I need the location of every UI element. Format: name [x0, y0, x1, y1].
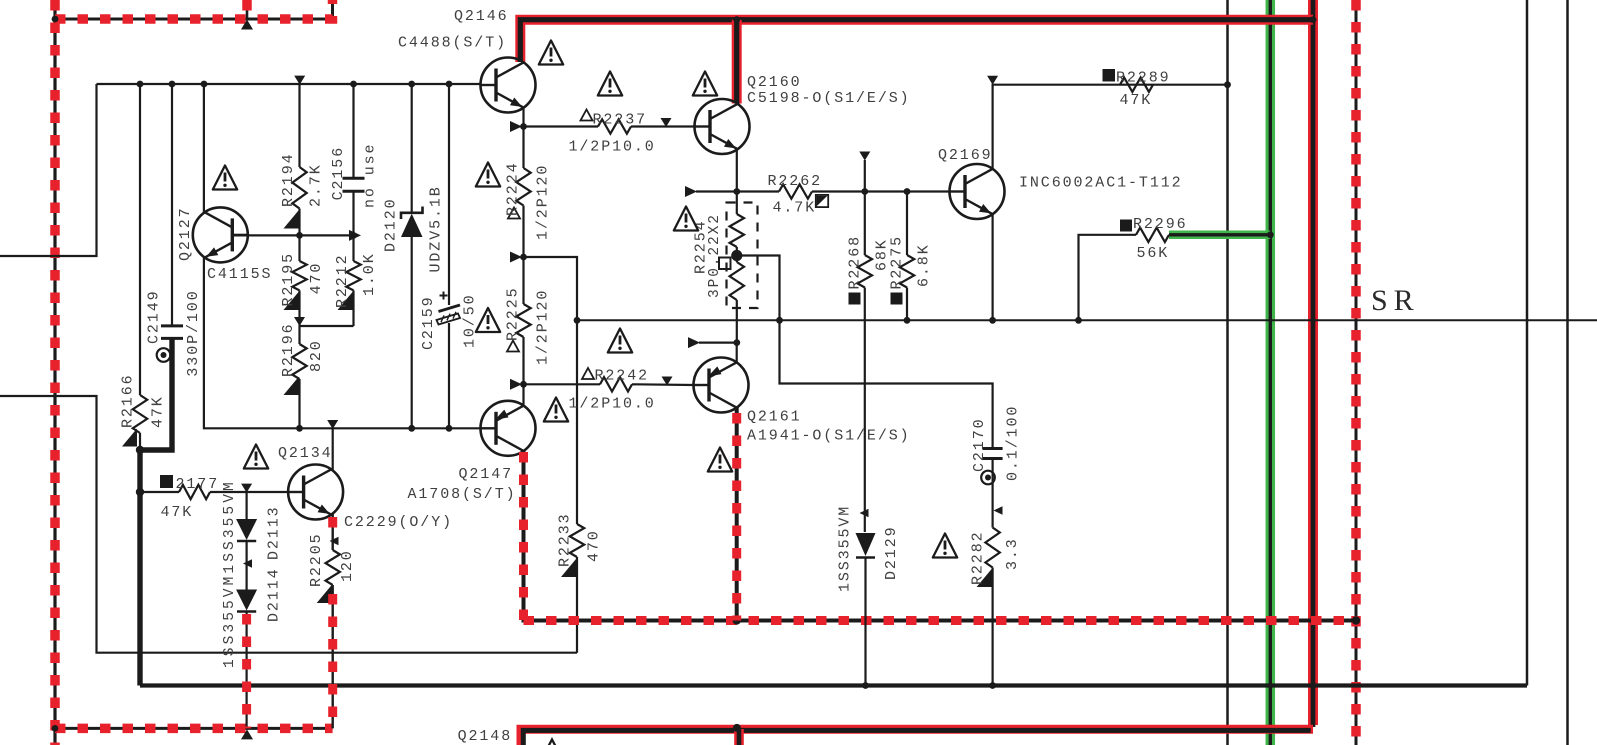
- node junction R2296 feed / SR: [1075, 317, 1082, 324]
- wire R2194 to base node: [298, 209, 300, 236]
- red dashed overlay R2205 to border: [328, 594, 337, 728]
- connector arrow down at Q2169 collector corner: [987, 76, 998, 85]
- node junction top red wire / Q2160: [733, 16, 740, 23]
- connector arrow down R2268 top: [859, 152, 870, 161]
- transistor Q2147: [481, 401, 536, 456]
- wire red highlighted positive rail: [1308, 0, 1318, 725]
- red dashed overlay bottom border: [55, 724, 333, 734]
- half-filled square mark R2262: [816, 195, 828, 207]
- svg-text:Q2169: Q2169: [938, 147, 993, 164]
- connector arrow up at top border: [241, 20, 253, 30]
- svg-text:D2129: D2129: [883, 525, 900, 580]
- square mark R2296: [1120, 220, 1132, 232]
- svg-text:1SS355VM: 1SS355VM: [837, 505, 854, 592]
- node center tap R2254: [731, 250, 742, 261]
- capacitor C2159: [448, 84, 450, 305]
- resistor R2296: [1136, 228, 1169, 242]
- resistor R2268: [864, 160, 866, 255]
- open mark R2237: [581, 110, 593, 121]
- red dashed overlay Q2161 collector: [732, 413, 741, 621]
- node base wire junction C2159: [446, 425, 453, 432]
- node bottom bus junction R2282: [989, 682, 996, 689]
- connector arrow down to D2113: [241, 484, 252, 493]
- svg-text:R2275: R2275: [889, 235, 906, 290]
- svg-text:Q2146: Q2146: [454, 8, 509, 25]
- svg-text:C5198-O(S1/E/S): C5198-O(S1/E/S): [747, 90, 911, 107]
- node bottom bus junction D2129: [862, 682, 869, 689]
- wire Q2169 emitter: [991, 214, 993, 320]
- node junction green link / green rail: [1267, 231, 1274, 238]
- connector arrow right at R2242 wire start: [510, 379, 522, 390]
- svg-text:1/2P10.0: 1/2P10.0: [569, 396, 656, 413]
- open square mark R2254: [719, 258, 731, 270]
- open mark R2242: [582, 368, 594, 379]
- svg-text:R2224: R2224: [505, 161, 522, 216]
- resistor R2233: [570, 524, 584, 557]
- svg-text:D2114: D2114: [266, 567, 283, 622]
- polarity arrow at R2205: [330, 537, 339, 546]
- svg-text:R2282: R2282: [970, 530, 987, 585]
- safety mark R2282: [977, 569, 992, 587]
- wire R2195/R2196 to R2212 bottom: [300, 325, 354, 327]
- dashed box around R2254: [727, 203, 758, 309]
- resistor R2254 lower: [730, 262, 744, 300]
- svg-text:A1941-O(S1/E/S): A1941-O(S1/E/S): [747, 428, 911, 445]
- resistor R2242: [524, 383, 601, 385]
- test point symbol at C2149: [157, 348, 171, 362]
- warning symbol near Q2161: [708, 448, 732, 472]
- svg-text:3P0.22X2: 3P0.22X2: [707, 213, 723, 298]
- resistor R2275: [906, 192, 908, 256]
- svg-text:C2170: C2170: [971, 417, 988, 472]
- wire Q2146 emitter: [522, 109, 524, 127]
- svg-text:A1708(S/T): A1708(S/T): [408, 486, 517, 503]
- wire emitter stub Q2161: [699, 342, 737, 344]
- resistor R2254 upper: [736, 192, 738, 215]
- node junction R2262 / R2268: [861, 188, 868, 195]
- svg-text:0.1/100: 0.1/100: [1005, 405, 1022, 481]
- svg-text:R2268: R2268: [847, 235, 864, 290]
- capacitor C2156: [352, 84, 354, 178]
- svg-text:Q2147: Q2147: [459, 466, 514, 483]
- svg-text:470: 470: [308, 262, 325, 295]
- svg-text:6.8K: 6.8K: [916, 243, 933, 287]
- svg-text:D2113: D2113: [266, 505, 283, 560]
- svg-text:R2296: R2296: [1133, 216, 1188, 233]
- transistor Q2160: [695, 99, 750, 154]
- svg-text:4.7K: 4.7K: [773, 200, 817, 217]
- node junction Q2146 emitter: [520, 123, 527, 130]
- connector arrow right at R2225 top: [510, 252, 522, 263]
- svg-text:Q2148: Q2148: [458, 728, 513, 745]
- node junction base net / C2156: [350, 232, 357, 239]
- transistor Q2169: [950, 164, 1005, 219]
- svg-text:1/2P120: 1/2P120: [535, 164, 552, 240]
- connector arrow down to Q2134: [327, 420, 338, 429]
- wire thick vertical bus: [137, 450, 142, 686]
- svg-text:R2166: R2166: [120, 373, 137, 428]
- warning symbol near Q2127: [213, 166, 237, 190]
- wire green highlighted rail: [1266, 0, 1276, 745]
- test point symbol at C2170: [981, 471, 995, 485]
- node top bus junction C2156: [350, 81, 357, 88]
- resistor R2262: [737, 190, 779, 192]
- node junction Q2160 emitter: [733, 188, 740, 195]
- svg-text:C2156: C2156: [330, 146, 347, 201]
- resistor R2212: [346, 261, 360, 290]
- node junction SR start: [574, 317, 581, 324]
- node junction R2262 / R2275: [904, 188, 911, 195]
- node junction Q2127 base / R2194: [296, 232, 303, 239]
- connector arrow down on R2242 wire: [662, 377, 673, 386]
- svg-text:Q2127: Q2127: [177, 206, 194, 261]
- diode D2113: [246, 492, 248, 519]
- node junction top red wire / red rail: [1310, 16, 1317, 23]
- wire Q2127 emitter to Q2147 base: [204, 257, 481, 429]
- wire red dashed rail (black core): [1355, 0, 1358, 745]
- svg-text:47K: 47K: [161, 504, 194, 521]
- square mark R2177: [160, 475, 173, 488]
- safety mark R2212: [338, 292, 353, 310]
- resistor R2195: [298, 235, 300, 261]
- svg-text:R2242: R2242: [595, 368, 650, 385]
- svg-text:R2233: R2233: [557, 512, 574, 567]
- square mark R2268: [849, 293, 861, 305]
- wire thick bottom bus: [140, 683, 1527, 687]
- node junction tap wire / SR line: [776, 317, 783, 324]
- warning symbol near Q2134: [244, 445, 268, 469]
- wire Q2127 collector: [203, 84, 205, 213]
- node top bus junction R2166: [137, 81, 144, 88]
- wire red drop to Q2160 collector: [732, 20, 742, 104]
- wire top red highlighted supply: [520, 20, 1313, 62]
- red dashed overlay Q2134 emitter net upper: [328, 517, 337, 536]
- svg-text:330P/100: 330P/100: [185, 289, 202, 376]
- resistor R2289: [1120, 78, 1153, 92]
- wire R2254 mid: [736, 247, 738, 262]
- connector arrow right at Q2146 emitter node: [510, 121, 522, 132]
- wire red stub down to Q2148: [734, 729, 744, 745]
- safety mark R2194: [284, 211, 299, 229]
- resistor R2166: [139, 84, 141, 395]
- svg-text:R2195: R2195: [280, 252, 297, 307]
- resistor R2196: [298, 326, 300, 344]
- svg-text:C4488(S/T): C4488(S/T): [398, 35, 507, 52]
- polarity arrow at D2114: [243, 559, 252, 568]
- safety mark R2205: [317, 585, 332, 603]
- svg-text:3.3: 3.3: [1004, 537, 1021, 570]
- svg-text:C2229(O/Y): C2229(O/Y): [344, 514, 453, 531]
- warning symbol near D2129: [933, 534, 957, 558]
- wire R2233 upper: [576, 320, 578, 524]
- connector arrow down on R2237 wire: [661, 118, 672, 127]
- node junction dashed bus / Q2161 collector: [733, 616, 741, 624]
- capacitor C2149: [171, 84, 173, 326]
- diode D2120 (zener UDZV5.1B): [411, 84, 413, 213]
- resistor R2282: [985, 528, 999, 568]
- resistor R2225: [522, 257, 524, 304]
- open mark R2224: [508, 208, 520, 219]
- node junction R2289 / rail A: [1224, 81, 1231, 88]
- svg-text:1/2P10.0: 1/2P10.0: [569, 139, 656, 156]
- connector arrow up at bottom border: [241, 729, 253, 739]
- svg-text:R2237: R2237: [593, 112, 648, 129]
- node top bus junction Q2127: [201, 81, 208, 88]
- svg-text:470: 470: [586, 529, 603, 562]
- node junction Q2161 emitter: [733, 339, 740, 346]
- safety mark R2195: [284, 292, 299, 310]
- resistor R2205: [326, 550, 340, 585]
- wire Q2147 collector dashed net (black core): [524, 451, 1357, 621]
- svg-text:R2196: R2196: [280, 322, 297, 377]
- connector arrow down R2195 bottom: [294, 317, 305, 326]
- node junction bottom red wire: [733, 724, 741, 732]
- warning symbol mid top 1: [598, 72, 622, 96]
- transistor Q2146: [481, 58, 536, 113]
- resistor R2224: [522, 127, 524, 169]
- svg-text:1/2P120: 1/2P120: [535, 289, 552, 365]
- svg-text:1SS355VM1SS355VM: 1SS355VM1SS355VM: [222, 479, 238, 668]
- warning symbol near R2242: [608, 329, 632, 353]
- wire vertical rail A: [1226, 0, 1229, 745]
- red dashed overlay top border: [55, 0, 333, 19]
- node top bus junction D2120: [408, 81, 415, 88]
- wire Q2160 emitter: [736, 150, 738, 192]
- diode D2114: [236, 590, 257, 611]
- svg-text:56K: 56K: [1137, 245, 1170, 262]
- svg-text:R2289: R2289: [1116, 70, 1171, 87]
- svg-text:820: 820: [308, 339, 325, 372]
- wire R2194 top: [298, 84, 300, 167]
- connector arrow down on top bus: [294, 76, 305, 85]
- svg-text:C2159: C2159: [420, 295, 437, 350]
- capacitor C2170: [983, 447, 1003, 450]
- wire vertical rail B: [1526, 0, 1529, 686]
- red dashed overlay on dashed rail: [1351, 0, 1361, 745]
- safety mark R2233: [561, 559, 576, 577]
- svg-text:47K: 47K: [1120, 92, 1153, 109]
- resistor R2194: [292, 167, 306, 209]
- node junction Q2169 emitter / SR: [989, 317, 996, 324]
- wire R2225 node to R2233 top: [524, 257, 578, 320]
- wire Q2127 base net: [232, 234, 353, 236]
- wire Q2134 emitter to R2205 (black core): [332, 514, 334, 551]
- node bottom border junction: [52, 725, 59, 732]
- red dashed overlay left border: [50, 0, 60, 745]
- svg-text:10/50: 10/50: [462, 293, 479, 348]
- wire R2296 feed: [1079, 235, 1137, 320]
- polarity arrow at R2282: [994, 506, 1003, 515]
- wire top border segment: [55, 0, 333, 19]
- warning symbol near R2224: [476, 163, 500, 187]
- node junction R2275 / SR: [904, 317, 911, 324]
- warning symbol mid top 2: [693, 72, 717, 96]
- connector arrow right at emitter stub: [685, 186, 697, 197]
- warning symbol near R2254: [674, 207, 698, 231]
- node top border junction: [52, 16, 59, 23]
- svg-text:Q2160: Q2160: [747, 74, 802, 91]
- warning symbol below R2242: [544, 398, 568, 422]
- warning symbol at Q2148 (clipped): [540, 740, 565, 745]
- svg-text:2177: 2177: [176, 476, 220, 493]
- node junction R2224/R2225: [520, 254, 527, 261]
- node base wire junction D2120: [408, 425, 415, 432]
- red dashed overlay Q2147 collector vertical: [519, 452, 528, 621]
- wire R2254 tap to C2170 feed: [737, 256, 993, 449]
- wire bottom red highlighted supply: [521, 729, 1313, 745]
- transistor Q2161: [694, 358, 749, 413]
- svg-text:Q2161: Q2161: [747, 409, 802, 426]
- connector arrow right at Q2161 emitter stub: [688, 337, 700, 348]
- svg-text:D2120: D2120: [383, 197, 400, 252]
- svg-text:C4115S: C4115S: [207, 266, 272, 283]
- svg-text:120: 120: [339, 549, 356, 582]
- square mark R2275: [891, 293, 903, 305]
- red dashed overlay bottom dashed bus: [524, 616, 1357, 625]
- transistor Q2127: [193, 207, 248, 262]
- resistor R2177: [140, 491, 179, 493]
- node junction thick bus / R2177: [136, 488, 144, 496]
- safety mark R2166: [122, 429, 137, 447]
- node junction R2166 bottom: [136, 446, 144, 454]
- wire Q2161 emitter: [736, 343, 738, 363]
- wire green highlighted link: [1169, 231, 1270, 240]
- svg-text:R2194: R2194: [280, 152, 297, 207]
- red dashed overlay D2114 to border: [242, 614, 251, 728]
- svg-text:R2212: R2212: [334, 253, 351, 308]
- wire left feed lower: [0, 396, 577, 653]
- diode D2129: [860, 509, 869, 518]
- connector arrow right on base net: [349, 230, 361, 241]
- svg-text:1.0K: 1.0K: [361, 252, 378, 296]
- wire stub to Q2134 collector: [332, 428, 334, 471]
- square mark R2289: [1103, 69, 1116, 82]
- wire left border (black core of red dashed service loop): [53, 0, 56, 745]
- svg-text:INC6002AC1-T112: INC6002AC1-T112: [1019, 175, 1183, 192]
- warning symbol near Q2146: [539, 41, 563, 65]
- open mark R2225: [507, 341, 519, 352]
- wire Q2169 collector: [993, 85, 1228, 170]
- svg-text:R2262: R2262: [768, 173, 823, 190]
- wire Q2161 collector dashed (black core): [735, 408, 739, 621]
- svg-text:R2205: R2205: [308, 532, 325, 587]
- svg-text:no use: no use: [362, 143, 379, 208]
- wire vertical rail C: [1566, 0, 1569, 745]
- safety mark R2196: [284, 377, 299, 395]
- wire thick C2149 to R2166 node: [140, 338, 172, 450]
- wire top bus: [97, 83, 481, 85]
- node top bus junction C2149: [169, 81, 176, 88]
- node top bus junction C2159: [446, 81, 453, 88]
- svg-text:SR: SR: [1371, 284, 1420, 317]
- wire emitter node stub with arrow: [696, 190, 737, 192]
- node base wire junction R2196: [296, 425, 303, 432]
- node junction R2225 bottom: [520, 381, 527, 388]
- svg-text:R2225: R2225: [505, 286, 522, 341]
- svg-text:UDZV5.1B: UDZV5.1B: [428, 185, 445, 272]
- resistor R2237: [524, 125, 599, 127]
- wire left feed upper: [0, 84, 97, 256]
- transistor Q2134: [288, 465, 343, 520]
- svg-text:2.7K: 2.7K: [308, 163, 325, 207]
- svg-text:C2149: C2149: [146, 289, 163, 344]
- svg-text:47K: 47K: [150, 395, 167, 428]
- svg-text:Q2134: Q2134: [278, 445, 333, 462]
- warning symbol near C2159: [476, 308, 500, 332]
- node junction dashed bus / dashed rail: [1352, 616, 1360, 624]
- wire bottom border segment (black core): [55, 727, 333, 730]
- wire connector stub at top border: [246, 0, 249, 19]
- wire SR net horizontal: [577, 319, 1597, 321]
- wire R2242 node to Q2147 collector: [522, 384, 524, 405]
